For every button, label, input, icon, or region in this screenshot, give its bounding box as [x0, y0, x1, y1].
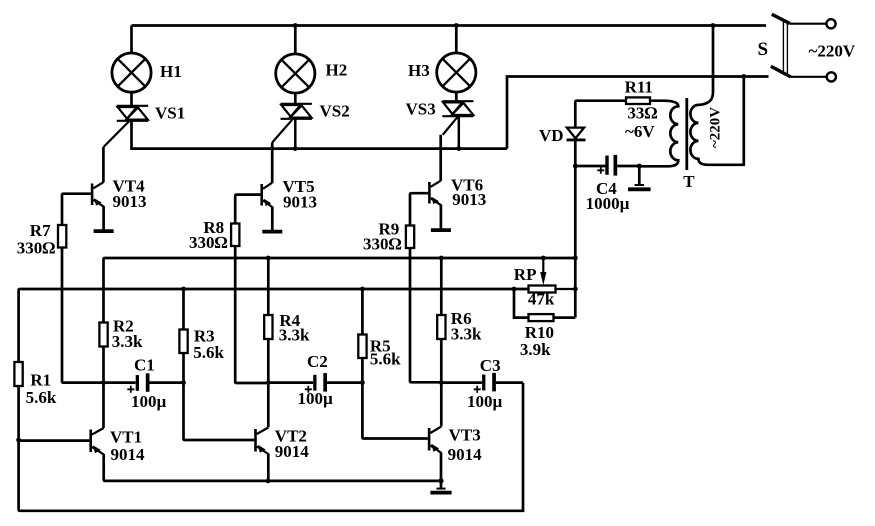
svg-text:H1: H1 [160, 62, 182, 81]
svg-text:5.6k: 5.6k [370, 350, 401, 369]
svg-text:~220V: ~220V [809, 42, 856, 61]
node VT3 collector [439, 380, 444, 385]
node RP right [573, 287, 578, 292]
ground VT4 emitter [94, 229, 114, 233]
wire VT1 base [19, 439, 90, 442]
node rail1 supply [573, 256, 578, 261]
node VT1 collector [101, 380, 106, 385]
wire VT2 emitter [267, 454, 270, 481]
wire top AC line y=25.5 [132, 24, 767, 27]
triac VS1 [104, 106, 149, 147]
svg-text:100µ: 100µ [131, 392, 167, 411]
rail2 base-bias rail y=289 with R1 top lead [19, 289, 529, 362]
svg-text:100µ: 100µ [467, 392, 503, 411]
ground VT6 emitter [431, 228, 451, 232]
triac VS2 [272, 104, 312, 149]
transformer core [685, 98, 688, 170]
svg-text:330Ω: 330Ω [363, 235, 402, 254]
svg-text:9014: 9014 [275, 442, 310, 461]
node VS3 bottom [456, 146, 461, 151]
svg-text:3.3k: 3.3k [451, 325, 482, 344]
svg-text:47k: 47k [528, 290, 555, 309]
svg-text:330Ω: 330Ω [17, 239, 56, 258]
svg-text:C1: C1 [134, 356, 155, 375]
svg-text:C3: C3 [480, 356, 501, 375]
node C1 right / R3 bottom [181, 380, 186, 385]
resistor R9 [406, 193, 441, 382]
transistor VT5 [260, 143, 272, 231]
node rail2 RP left [512, 287, 517, 292]
resistor R5 [358, 289, 366, 383]
node VD cathode / C4 + [573, 164, 578, 169]
transistor VT3 [428, 427, 442, 453]
node VT2 collector [266, 380, 271, 385]
resistor R8 [231, 195, 268, 383]
svg-text:3.3k: 3.3k [112, 332, 143, 351]
capacitor C4 [575, 155, 639, 176]
node transformer primary top [711, 23, 716, 28]
resistor R7 [58, 194, 104, 383]
wire C3 right feedback loop to VT1 base node [19, 383, 523, 511]
capacitor C1 [104, 373, 184, 393]
svg-text:330Ω: 330Ω [189, 233, 228, 252]
transistor VT4 [91, 147, 104, 230]
resistor R11 [577, 97, 650, 104]
capacitor C2 [268, 373, 362, 393]
wire +6V supply drop x=575 [574, 166, 577, 318]
node transformer primary bottom on AC line [741, 74, 746, 79]
svg-text:VS2: VS2 [320, 102, 350, 121]
svg-text:9013: 9013 [113, 192, 147, 211]
diode VD [567, 101, 586, 166]
node rail1 RP wiper [541, 256, 546, 261]
svg-text:VT3: VT3 [449, 426, 481, 445]
transformer T primary winding [690, 26, 743, 165]
node C4 minus / secondary bottom [637, 164, 642, 169]
svg-text:9014: 9014 [111, 445, 146, 464]
ground C4 [628, 166, 651, 189]
svg-text:C2: C2 [307, 352, 328, 371]
ground main [430, 481, 451, 493]
svg-text:VT1: VT1 [110, 428, 142, 447]
svg-text:VS1: VS1 [155, 104, 185, 123]
svg-text:5.6k: 5.6k [26, 388, 57, 407]
node rail1 R4 [266, 256, 271, 261]
lamp H1 [112, 26, 151, 106]
transformer T secondary winding [639, 101, 678, 167]
svg-text:3.9k: 3.9k [520, 340, 551, 359]
svg-text:3.3k: 3.3k [279, 326, 310, 345]
node H2 top [293, 23, 298, 28]
resistor R2 [99, 323, 107, 428]
svg-text:R1: R1 [30, 371, 51, 390]
resistor R10 [514, 289, 575, 321]
node C2 right / R5 bottom [360, 380, 365, 385]
svg-text:33Ω: 33Ω [627, 104, 657, 123]
svg-text:H3: H3 [408, 61, 430, 80]
svg-text:R7: R7 [30, 221, 51, 240]
triac VS3 [442, 101, 473, 148]
ground VT5 emitter [262, 230, 282, 234]
lamp H3 [437, 26, 476, 102]
node rail1 R6 [439, 256, 444, 261]
svg-text:9013: 9013 [452, 190, 486, 209]
node R1 bottom / feedback [16, 438, 21, 443]
transistor VT2 [254, 428, 268, 454]
node VT2 emitter [266, 479, 271, 484]
node rail2 R5 [360, 287, 365, 292]
wire VT3 base drop from C2/R5 node [362, 383, 427, 439]
svg-text:R11: R11 [625, 78, 653, 97]
svg-text:T: T [683, 172, 695, 191]
resistor R4 [264, 258, 272, 427]
capacitor C3 [441, 373, 523, 393]
svg-text:~6V: ~6V [625, 122, 655, 141]
wire second AC line y=76.5 from bend x=507 [507, 77, 769, 149]
node H3 top [454, 23, 459, 28]
svg-text:~220V: ~220V [708, 107, 724, 148]
resistor R1 [14, 362, 22, 440]
svg-text:VS3: VS3 [406, 100, 436, 119]
svg-text:VD: VD [539, 126, 564, 145]
node VS2 bottom [293, 146, 298, 151]
svg-text:H2: H2 [326, 61, 348, 80]
svg-text:1000µ: 1000µ [586, 194, 630, 213]
wire triac return y=148.6 [132, 121, 508, 149]
node VT3 emitter / ground [438, 478, 443, 483]
rail1 +6V collector rail y=258 with R2 top lead [104, 258, 576, 323]
transistor VT6 [428, 135, 441, 229]
wire emitter rail y=481 [104, 454, 441, 481]
wire VT2 base drop from C1/R3 node [184, 383, 255, 440]
node rail2 R3 [181, 287, 186, 292]
potentiometer RP [529, 258, 576, 293]
svg-text:9014: 9014 [448, 445, 483, 464]
svg-text:9013: 9013 [283, 193, 317, 212]
transistor VT1 [89, 428, 103, 454]
resistor R6 [437, 258, 445, 426]
svg-text:RP: RP [514, 265, 537, 284]
lamp H2 [276, 26, 315, 104]
wire VT3 emitter [440, 453, 443, 481]
svg-text:100µ: 100µ [298, 389, 334, 408]
resistor R3 [179, 289, 187, 383]
svg-text:S: S [758, 39, 769, 60]
switch S [771, 14, 836, 81]
svg-text:5.6k: 5.6k [193, 343, 224, 362]
